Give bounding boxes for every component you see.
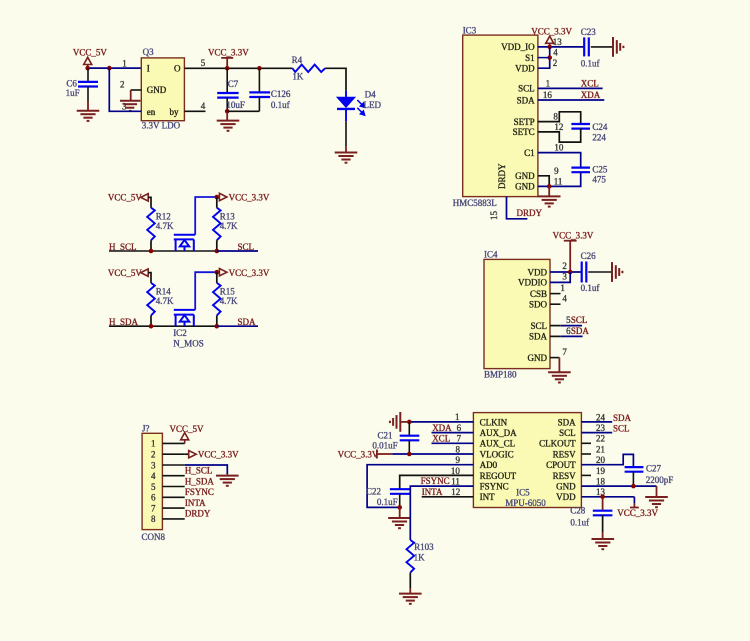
svg-text:SCL: SCL bbox=[571, 315, 588, 325]
svg-text:INTA: INTA bbox=[422, 487, 443, 497]
wire ground stub bbox=[226, 474, 228, 475]
ground right of C23 bbox=[613, 37, 623, 57]
svg-text:8: 8 bbox=[553, 112, 558, 122]
wire rail to R13 bbox=[216, 197, 218, 208]
transistor N-MOS bbox=[174, 235, 195, 251]
svg-text:12: 12 bbox=[451, 487, 460, 497]
wire VCC_3.3V stub bbox=[569, 241, 571, 272]
ground below Q3 pin 2 bbox=[120, 101, 140, 111]
wire GND pin 18 bbox=[581, 485, 656, 487]
connector pin 1 bbox=[162, 442, 184, 444]
wire R13 to SCL wire bbox=[216, 240, 218, 251]
svg-text:SCL: SCL bbox=[518, 84, 535, 94]
svg-text:IC3: IC3 bbox=[463, 25, 477, 35]
connector pin 3 bbox=[162, 464, 184, 466]
svg-text:VCC_3.3V: VCC_3.3V bbox=[531, 26, 572, 36]
wire Q3 GND pin 2 bbox=[131, 89, 142, 91]
svg-text:1: 1 bbox=[455, 412, 460, 422]
power port VCC_5V arrow bbox=[84, 57, 92, 68]
wire SCL bbox=[217, 250, 258, 252]
svg-text:6: 6 bbox=[151, 493, 156, 503]
svg-text:R15: R15 bbox=[220, 287, 236, 297]
wire VCC_3.3V stub bbox=[377, 453, 392, 455]
wire pin 2 to ground bbox=[130, 90, 132, 101]
junction at C6 top bbox=[85, 66, 90, 71]
pin CSB stub bbox=[550, 293, 561, 295]
svg-text:C7: C7 bbox=[228, 79, 239, 89]
IC IC5 MPU-6050 body bbox=[473, 413, 581, 508]
svg-text:4: 4 bbox=[562, 293, 567, 303]
svg-text:13: 13 bbox=[553, 37, 563, 47]
capacitor C6 pin top bbox=[87, 68, 89, 82]
svg-text:en: en bbox=[147, 107, 156, 117]
led D4 cathode pin bbox=[345, 110, 347, 122]
capacitor C22 bbox=[390, 489, 410, 494]
svg-text:MPU-6050: MPU-6050 bbox=[505, 498, 546, 508]
svg-text:RESV: RESV bbox=[553, 449, 577, 459]
wire GND pin 11 to C25 bottom bbox=[538, 172, 581, 186]
wire pin 2 extension bbox=[185, 453, 189, 455]
svg-text:S1: S1 bbox=[525, 53, 535, 63]
svg-text:4.7K: 4.7K bbox=[220, 221, 238, 231]
pin SCL stub bbox=[550, 325, 561, 327]
capacitor C7 pin bottom bbox=[226, 98, 228, 112]
IC U-IC3 HMC5883L body bbox=[463, 35, 538, 197]
wire gate to VCC_3.3V rail bbox=[195, 272, 217, 310]
ground left of pin 1 bbox=[390, 412, 400, 432]
svg-text:VDD: VDD bbox=[515, 64, 535, 74]
ground below C7 bbox=[217, 121, 240, 131]
pin CLKOUT stub bbox=[581, 442, 591, 444]
svg-text:VCC_5V: VCC_5V bbox=[108, 268, 143, 278]
svg-text:1: 1 bbox=[122, 58, 127, 68]
capacitor C7 pin top bbox=[226, 68, 228, 93]
connector pin 5 bbox=[162, 486, 184, 488]
pin RESV stub bbox=[581, 453, 591, 455]
wire R103 to ground bbox=[409, 573, 411, 589]
capacitor C126 pin top bbox=[258, 68, 260, 92]
resistor R15 bbox=[213, 283, 221, 316]
connector pin 7 bbox=[162, 507, 184, 509]
ground below IC3 bbox=[538, 196, 561, 206]
junction SDA bbox=[215, 324, 220, 329]
ground below C6 bbox=[77, 111, 100, 121]
connector pin 2 bbox=[162, 453, 184, 455]
svg-text:VCC_3.3V: VCC_3.3V bbox=[229, 193, 270, 203]
svg-text:0.1uf: 0.1uf bbox=[271, 100, 290, 110]
svg-text:2: 2 bbox=[151, 450, 156, 460]
junction SCL bbox=[215, 249, 220, 254]
svg-text:7: 7 bbox=[151, 503, 156, 513]
svg-text:GND: GND bbox=[147, 85, 167, 95]
wire R4 to LED bbox=[325, 68, 346, 91]
svg-text:224: 224 bbox=[592, 133, 606, 143]
wire VCC_5V to R12 bbox=[148, 197, 151, 207]
svg-text:BMP180: BMP180 bbox=[484, 370, 517, 380]
capacitor C23 bbox=[584, 37, 589, 56]
svg-text:24: 24 bbox=[596, 412, 606, 422]
capacitor C28 pin top bbox=[602, 497, 604, 511]
led D4 light arrows bbox=[357, 100, 364, 115]
svg-text:VCC_3.3V: VCC_3.3V bbox=[553, 230, 594, 240]
resistor R4 bbox=[293, 65, 326, 72]
svg-text:VDD: VDD bbox=[528, 267, 548, 277]
capacitor C21 pin bottom bbox=[408, 440, 410, 454]
svg-text:DRDY: DRDY bbox=[185, 509, 211, 519]
junction at C21 bottom bbox=[407, 452, 412, 457]
svg-text:SDA: SDA bbox=[517, 95, 536, 105]
svg-text:D4: D4 bbox=[365, 90, 376, 100]
svg-text:22: 22 bbox=[596, 434, 605, 444]
led D4 anode pin bbox=[345, 91, 347, 97]
svg-text:19: 19 bbox=[596, 466, 606, 476]
wire SETP to C24 top bbox=[538, 112, 581, 124]
power port VCC_3.3V arrow bbox=[546, 36, 554, 47]
svg-text:R103: R103 bbox=[414, 542, 434, 552]
svg-text:VDDIO: VDDIO bbox=[518, 278, 547, 288]
capacitor C126 bbox=[249, 92, 270, 97]
junction H_SCL bbox=[149, 249, 154, 254]
wire rail to R15 bbox=[216, 272, 218, 283]
power port VCC_5V arrow bbox=[181, 433, 189, 444]
wire gate to VCC_3.3V rail bbox=[195, 197, 217, 235]
svg-text:7: 7 bbox=[562, 347, 567, 357]
capacitor C27 pin bottom bbox=[632, 472, 634, 486]
capacitor C25 bbox=[571, 168, 590, 173]
svg-text:VCC_5V: VCC_5V bbox=[73, 47, 108, 57]
svg-text:R14: R14 bbox=[156, 287, 172, 297]
svg-text:VCC_3.3V: VCC_3.3V bbox=[198, 450, 239, 460]
svg-text:VCC_5V: VCC_5V bbox=[170, 424, 205, 434]
junction C7 bottom bbox=[225, 109, 230, 114]
connector pin 4 bbox=[162, 475, 184, 477]
wire SDA bbox=[217, 325, 258, 327]
wire pin 3 to ground bbox=[185, 465, 228, 474]
svg-text:AD0: AD0 bbox=[480, 460, 498, 470]
svg-text:AUX_CL: AUX_CL bbox=[480, 439, 515, 449]
wire SDA bbox=[561, 335, 583, 337]
wire ground stub bbox=[656, 486, 658, 497]
svg-text:INT: INT bbox=[480, 492, 495, 502]
wire pin 1 to VCC_5V bbox=[184, 442, 186, 443]
svg-text:SCL: SCL bbox=[530, 321, 547, 331]
svg-text:3.3V LDO: 3.3V LDO bbox=[142, 121, 181, 131]
svg-text:11: 11 bbox=[451, 477, 460, 487]
ground below IC4 bbox=[548, 372, 571, 382]
capacitor C6 bbox=[78, 82, 98, 87]
svg-text:6: 6 bbox=[457, 423, 462, 433]
wire VCC_5V to R14 bbox=[148, 273, 151, 283]
svg-text:GND: GND bbox=[556, 482, 576, 492]
svg-text:3: 3 bbox=[562, 272, 567, 282]
wire R12 to H_SCL wire bbox=[150, 240, 152, 251]
svg-text:C27: C27 bbox=[646, 464, 662, 474]
svg-text:VDD_IO: VDD_IO bbox=[501, 42, 535, 52]
svg-text:3: 3 bbox=[151, 460, 156, 470]
svg-text:VLOGIC: VLOGIC bbox=[480, 449, 514, 459]
wire VDD to VCC_3.3V port bbox=[633, 497, 635, 504]
svg-text:C1: C1 bbox=[524, 148, 535, 158]
wire SCL bbox=[561, 325, 582, 327]
svg-text:SETC: SETC bbox=[513, 127, 535, 137]
svg-text:FSYNC: FSYNC bbox=[421, 476, 450, 486]
wire to ground stub bbox=[345, 146, 347, 152]
svg-text:XDA: XDA bbox=[432, 423, 452, 433]
wire INT pin 12 bbox=[422, 496, 474, 498]
svg-text:1: 1 bbox=[560, 283, 565, 293]
svg-text:4.7K: 4.7K bbox=[156, 221, 174, 231]
svg-text:10: 10 bbox=[451, 466, 461, 476]
capacitor C21 pin top bbox=[408, 422, 410, 436]
svg-text:SETP: SETP bbox=[514, 117, 535, 127]
wire VCC to VDD pin 2 bbox=[538, 47, 550, 68]
wire SETC to C24 bottom bbox=[538, 129, 581, 143]
svg-text:N_MOS: N_MOS bbox=[173, 339, 204, 349]
junction at VCC bbox=[547, 45, 552, 50]
svg-text:C28: C28 bbox=[570, 505, 586, 515]
svg-text:475: 475 bbox=[592, 175, 606, 185]
svg-text:H_SCL: H_SCL bbox=[185, 466, 213, 476]
svg-text:VDD: VDD bbox=[556, 492, 576, 502]
svg-text:CSB: CSB bbox=[530, 289, 547, 299]
IC IC4 BMP180 body bbox=[484, 259, 550, 368]
svg-text:C126: C126 bbox=[271, 89, 291, 99]
junction C22 bottom bbox=[397, 505, 402, 510]
svg-text:XDA: XDA bbox=[581, 90, 601, 100]
svg-text:4: 4 bbox=[151, 471, 156, 481]
svg-text:SDO: SDO bbox=[529, 300, 548, 310]
power port VCC_3.3V bar bbox=[221, 58, 233, 68]
svg-text:XCL: XCL bbox=[581, 78, 599, 88]
svg-text:J?: J? bbox=[142, 424, 150, 434]
svg-text:7: 7 bbox=[457, 434, 462, 444]
junction at S1 bbox=[547, 55, 552, 60]
ground below C28 bbox=[592, 539, 615, 549]
wire CLKIN pin 1 bbox=[409, 421, 473, 423]
svg-text:0.1uF: 0.1uF bbox=[377, 497, 398, 507]
svg-text:SDA: SDA bbox=[571, 326, 590, 336]
wire DRDY pin 15 bbox=[507, 197, 528, 219]
capacitor C24 bbox=[571, 124, 590, 129]
svg-text:IC5: IC5 bbox=[516, 487, 530, 497]
svg-text:SCL: SCL bbox=[613, 424, 630, 434]
svg-text:4: 4 bbox=[201, 101, 206, 111]
wire AUX_DA to XDA bbox=[432, 432, 474, 434]
svg-text:1K: 1K bbox=[414, 553, 426, 563]
wire SCL to XCL bbox=[538, 87, 603, 89]
power port VCC_3.3V bar bbox=[630, 507, 639, 509]
wire C28 to ground bbox=[602, 515, 604, 532]
junction VCC_3.3V rail bbox=[215, 195, 220, 200]
svg-text:4: 4 bbox=[553, 48, 558, 58]
svg-text:1uF: 1uF bbox=[66, 88, 80, 98]
wire GND pin 9 down bbox=[538, 176, 549, 187]
svg-text:C6: C6 bbox=[66, 78, 77, 88]
svg-text:CON8: CON8 bbox=[142, 532, 166, 542]
connector J? body bbox=[142, 433, 162, 529]
svg-text:C25: C25 bbox=[592, 164, 608, 174]
svg-text:VCC_3.3V: VCC_3.3V bbox=[338, 449, 379, 459]
wire ground stub bbox=[409, 589, 411, 594]
svg-text:C23: C23 bbox=[581, 27, 597, 37]
wire R15 to SDA wire bbox=[216, 316, 218, 327]
power port VCC_3.3V bar bbox=[376, 450, 378, 459]
junction VCC_3.3V rail bbox=[215, 270, 220, 275]
ground below C22 bbox=[388, 518, 411, 528]
wire C6 to ground bbox=[87, 101, 89, 111]
svg-text:Q3: Q3 bbox=[143, 47, 154, 57]
power port VCC_3.3V arrow bbox=[189, 451, 197, 458]
svg-text:16: 16 bbox=[543, 90, 553, 100]
capacitor C26 bbox=[582, 262, 587, 283]
svg-text:by: by bbox=[170, 107, 180, 117]
svg-text:H_SDA: H_SDA bbox=[185, 476, 215, 486]
svg-text:2200pF: 2200pF bbox=[646, 475, 674, 485]
svg-text:HMC5883L: HMC5883L bbox=[453, 198, 497, 208]
svg-text:1: 1 bbox=[151, 439, 156, 449]
svg-text:R4: R4 bbox=[292, 55, 303, 65]
svg-text:DRDY: DRDY bbox=[497, 163, 507, 189]
wire C7 to ground bbox=[226, 111, 228, 120]
junction VCC_3.3V at C7 bbox=[225, 66, 230, 71]
capacitor C6 pin bottom bbox=[87, 87, 89, 102]
wire ground stub bbox=[602, 532, 604, 539]
svg-text:3: 3 bbox=[122, 101, 127, 111]
power port VCC_3.3V arrow bbox=[219, 193, 227, 200]
pin SDO stub bbox=[550, 303, 561, 305]
svg-text:10uF: 10uF bbox=[226, 100, 245, 110]
svg-text:LED: LED bbox=[364, 100, 382, 110]
svg-text:1K: 1K bbox=[292, 72, 304, 82]
wire AUX_CL to XCL bbox=[432, 442, 474, 444]
svg-text:0.1uf: 0.1uf bbox=[581, 59, 600, 69]
svg-text:SDA: SDA bbox=[529, 332, 548, 342]
wire C26 to ground bbox=[588, 271, 611, 273]
svg-text:21: 21 bbox=[596, 444, 605, 454]
svg-text:12: 12 bbox=[554, 122, 563, 132]
wire C1 to C25 top bbox=[538, 153, 581, 168]
capacitor C22 pin bottom bbox=[399, 494, 401, 508]
wire to ground stub bbox=[399, 507, 401, 518]
regulator Q3 body bbox=[141, 58, 184, 121]
resistor R13 bbox=[213, 208, 221, 241]
power port VCC_3.3V arrow bbox=[219, 269, 227, 276]
wire SDA pin 24 bbox=[581, 421, 612, 423]
wire C126 bottom to C7 bottom bbox=[227, 110, 259, 112]
svg-text:5: 5 bbox=[151, 482, 156, 492]
svg-text:DRDY: DRDY bbox=[517, 208, 543, 218]
svg-text:IC2: IC2 bbox=[173, 328, 187, 338]
svg-text:2: 2 bbox=[120, 79, 125, 89]
resistor R103 bbox=[407, 540, 415, 573]
svg-text:INTA: INTA bbox=[185, 498, 206, 508]
resistor R12 bbox=[147, 208, 155, 241]
capacitor C126 pin bottom bbox=[258, 97, 260, 111]
svg-text:9: 9 bbox=[456, 455, 461, 465]
wire to ground stub bbox=[548, 186, 550, 196]
wire GND pin 7 bbox=[550, 357, 559, 359]
svg-text:GND: GND bbox=[528, 353, 548, 363]
svg-text:18: 18 bbox=[596, 477, 606, 487]
wire FSYNC to R103 bbox=[410, 486, 473, 540]
wire GND stub bbox=[558, 358, 560, 373]
wire SCL pin 23 bbox=[581, 432, 612, 434]
svg-text:0.1uf: 0.1uf bbox=[581, 283, 600, 293]
svg-text:GND: GND bbox=[515, 182, 535, 192]
svg-text:15: 15 bbox=[489, 211, 499, 221]
led D4 triangle and bar bbox=[337, 97, 355, 109]
svg-text:GND: GND bbox=[515, 171, 535, 181]
svg-text:AUX_DA: AUX_DA bbox=[480, 428, 517, 438]
wire S1 pin 4 bbox=[538, 57, 550, 59]
junction at C126 bbox=[257, 66, 262, 71]
wire VDD_IO to C23 bbox=[538, 46, 584, 48]
wire to VLOGIC pin 8 bbox=[392, 453, 473, 455]
svg-text:4.7K: 4.7K bbox=[220, 296, 238, 306]
svg-text:O: O bbox=[174, 64, 181, 74]
wire power stub bbox=[633, 503, 635, 507]
svg-text:11: 11 bbox=[554, 176, 563, 186]
capacitor C27 bbox=[625, 467, 644, 472]
svg-text:CLKIN: CLKIN bbox=[480, 417, 508, 427]
junction at C28 bbox=[600, 495, 605, 500]
power port VCC_5V arrow bbox=[141, 194, 149, 201]
svg-text:FSYNC: FSYNC bbox=[185, 487, 214, 497]
svg-text:VCC_3.3V: VCC_3.3V bbox=[229, 268, 270, 278]
wire Q3 output pin 5 rail bbox=[184, 67, 292, 69]
junction H_SDA bbox=[149, 324, 154, 329]
svg-text:IC4: IC4 bbox=[484, 250, 498, 260]
wire VDD to C26 bbox=[550, 271, 582, 273]
power port VCC_3.3V bar bbox=[564, 240, 577, 242]
svg-text:C26: C26 bbox=[581, 251, 597, 261]
svg-text:FSYNC: FSYNC bbox=[480, 482, 509, 492]
svg-text:C22: C22 bbox=[366, 487, 381, 497]
svg-text:4.7K: 4.7K bbox=[156, 296, 174, 306]
svg-text:8: 8 bbox=[456, 444, 461, 454]
svg-text:9: 9 bbox=[554, 166, 559, 176]
wire AD0 to ground loop bbox=[367, 465, 473, 508]
svg-text:VCC_3.3V: VCC_3.3V bbox=[208, 47, 249, 57]
wire CPOUT to C27 bbox=[581, 454, 633, 467]
junction VDD/VDDIO bbox=[568, 270, 573, 275]
ground below D4 bbox=[335, 153, 358, 163]
svg-text:I: I bbox=[147, 64, 150, 74]
ground at connector pin 3 bbox=[216, 476, 239, 486]
wire VDD pin 13 bbox=[581, 496, 634, 498]
ground below R103 bbox=[399, 594, 422, 604]
connector pin 6 bbox=[162, 496, 184, 498]
wire C23 to ground bbox=[591, 46, 613, 48]
junction at en branch bbox=[107, 66, 112, 71]
svg-text:20: 20 bbox=[596, 455, 606, 465]
wire LED cathode to ground bbox=[345, 121, 347, 146]
ground right of C26 bbox=[612, 262, 622, 282]
wire REGOUT to C22 bbox=[400, 475, 474, 489]
svg-text:VCC_5V: VCC_5V bbox=[108, 193, 143, 203]
svg-text:SDA: SDA bbox=[613, 413, 632, 423]
junction GND pins bbox=[547, 184, 552, 189]
transistor IC2 bbox=[174, 310, 195, 326]
wire en loop to pin 3 bbox=[109, 68, 141, 111]
svg-text:VCC_3.3V: VCC_3.3V bbox=[617, 508, 658, 518]
resistor R14 bbox=[147, 283, 155, 316]
wire R14 to H_SDA wire bbox=[150, 316, 152, 327]
capacitor C21 bbox=[400, 436, 420, 441]
svg-text:23: 23 bbox=[596, 423, 606, 433]
svg-text:SCL: SCL bbox=[559, 428, 576, 438]
svg-text:10: 10 bbox=[554, 143, 564, 153]
